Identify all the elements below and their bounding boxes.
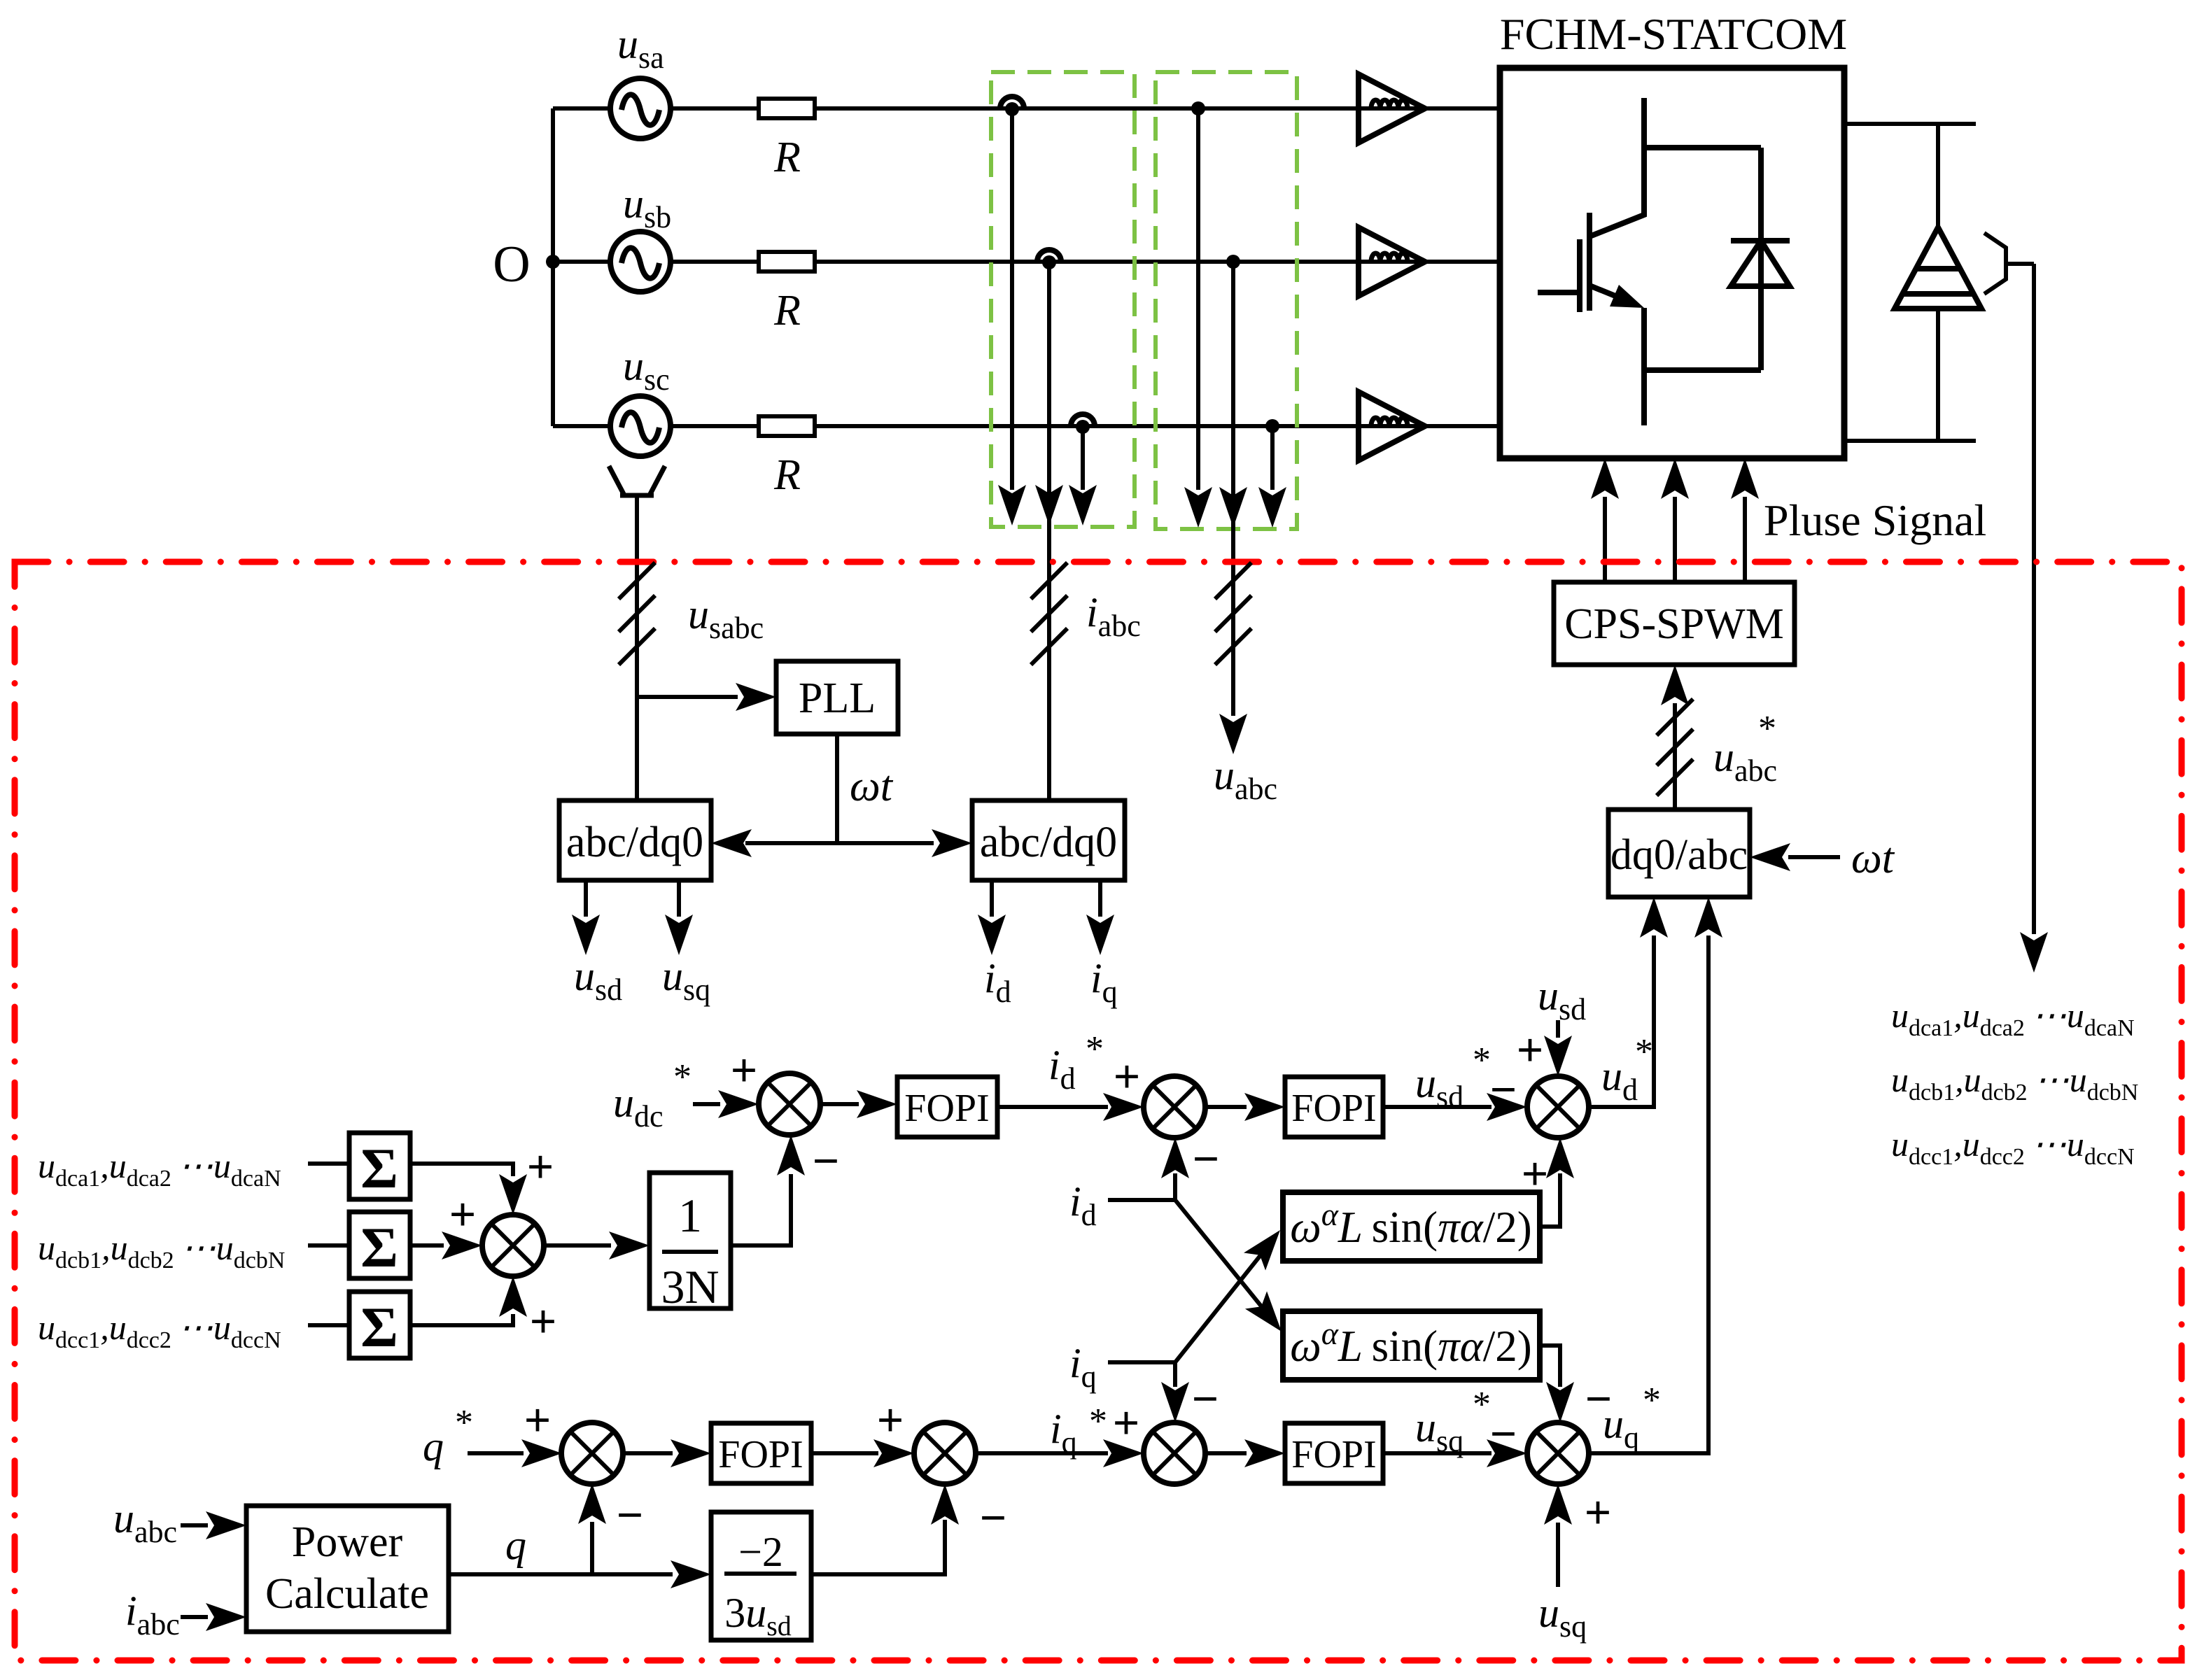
resistor R phase c [759,416,815,436]
svg-text:+: + [1114,1050,1141,1103]
resistor R phase a [759,99,815,118]
green sensor box 2 (voltage) [1156,72,1297,529]
wire: wL upper to A6 [1540,1173,1560,1227]
wire: uabc* to CPS-SPWM [1673,703,1677,810]
wire: tap a drop [1196,108,1200,490]
wire: sensor a drop [1010,112,1014,490]
filter inductor phase c [1359,392,1425,460]
ac source usc [610,396,671,456]
wire: A2 to 1/3N [544,1243,611,1248]
block -2/3usd [711,1512,811,1640]
wire: phase c line [671,424,759,428]
igbt Q1 body bar [1587,213,1592,311]
wire: FOPI2 to A6 [1383,1105,1491,1109]
svg-text:*: * [1473,1040,1491,1080]
wire: A3 to FOPI q1 [623,1451,673,1455]
wire: usq output [677,880,681,917]
wire: FOPI1 to A5 [997,1105,1108,1109]
wire: q up into A3 [590,1522,594,1574]
wire: sum b to adder [410,1243,444,1248]
adder A1 dc voltage error [759,1073,820,1135]
abc/dq0 block left [559,800,711,880]
wire: phase b line to converter [815,260,1500,264]
svg-text:+: + [731,1043,758,1096]
wire: iabc into power calc [181,1615,208,1619]
svg-text:−: − [1193,1132,1220,1185]
svg-text:−: − [813,1134,840,1187]
adder A7 current error q [1144,1423,1205,1484]
svg-text:Pluse Signal: Pluse Signal [1764,495,1986,545]
wire: iabc vertical [1047,265,1051,800]
diode D1 cathode bar [1731,238,1790,243]
block 1/3N [650,1173,731,1308]
wire: A6 to dq0/abc [1589,936,1654,1107]
svg-text:*: * [1635,1032,1653,1072]
diode D1 triangle [1731,241,1790,286]
svg-text:FCHM-STATCOM: FCHM-STATCOM [1500,9,1847,59]
svg-text:Calculate: Calculate [265,1570,429,1618]
svg-text:q: q [423,1423,444,1469]
wire: A5 to FOPI2 [1205,1105,1247,1109]
measurement bracket [1984,233,2006,294]
wire: PLL output [835,734,839,843]
wire: row a to sum [308,1162,349,1166]
wire: phase a line to converter [815,106,1500,111]
adder A8 uq* [1527,1423,1589,1484]
block wL upper [1283,1192,1540,1261]
svg-text:dq0/abc: dq0/abc [1610,831,1748,879]
slashes on uabc [1215,563,1251,599]
svg-text:*: * [1758,709,1776,749]
wire: capacitor stack top lead [1936,124,1940,227]
svg-text:ωt: ωt [1851,835,1895,882]
wire: sensor c drop [1081,430,1085,490]
svg-text:ωt: ωt [850,763,894,810]
block FOPI q2 [1285,1423,1383,1483]
block wL lower [1283,1311,1540,1380]
adder A6 ud* [1527,1076,1589,1138]
svg-text:+: + [1522,1147,1549,1200]
svg-text:+: + [527,1140,554,1193]
adder A4 [914,1423,976,1484]
wire: id feedback [1108,1198,1175,1202]
svg-text:−: − [980,1491,1007,1544]
wire: iq diagonal to wL upper [1175,1255,1261,1362]
wire: sum a to adder [410,1164,513,1176]
green sensor box 1 (current) [991,72,1135,527]
wire: A8 to dq0/abc [1589,936,1708,1453]
svg-text:+: + [1517,1023,1544,1076]
wire: phase c line to converter [815,424,1500,428]
red dash-dot control border [15,562,2182,1660]
voltage tap phase a [1191,101,1205,115]
svg-text:FOPI: FOPI [718,1433,803,1476]
svg-text:1: 1 [678,1189,702,1242]
wire: wL lower to A8 [1540,1346,1560,1387]
svg-text:−: − [1490,1063,1517,1116]
filter inductor phase a [1359,74,1425,143]
igbt Q1 top rail [1644,145,1761,150]
wire: row b to sum [308,1243,349,1248]
svg-text:q: q [505,1522,526,1568]
PLL block [776,661,898,734]
diode D1 branch [1758,148,1764,370]
pulse line a [1603,497,1607,582]
capacitor stack triangle [1895,227,1981,309]
svg-text:−: − [1490,1407,1517,1460]
wire: dc top rail [1844,122,1976,126]
wire: wt into dq0/abc [1788,855,1840,859]
svg-text:R: R [773,451,801,499]
svg-text:*: * [673,1057,692,1097]
wire: iq down into A7 [1173,1362,1177,1387]
igbt Q1 gate lead [1538,290,1580,295]
wire: sum c to adder [410,1314,513,1325]
wire: A7 to FOPI q2 [1205,1451,1247,1455]
svg-text:Σ: Σ [360,1295,398,1359]
svg-text:+: + [1113,1396,1140,1449]
svg-text:*: * [1089,1402,1107,1441]
wire: q* into A3 [468,1451,524,1455]
svg-text:3N: 3N [661,1260,719,1313]
wire: iq output [1098,880,1102,917]
current sensor phase c [1071,414,1095,434]
wire: q output [449,1572,673,1576]
wire: usabc vertical [635,495,639,800]
wire: phase b line [671,260,759,264]
wire: A1 to FOPI1 [820,1102,859,1106]
wire: row c to sum [308,1323,349,1327]
svg-text:+: + [530,1294,557,1348]
slashes on iabc [1031,563,1067,599]
wire: left neutral bus [551,108,555,426]
current sensor phase b [1037,250,1061,269]
svg-text:Σ: Σ [360,1215,398,1279]
sum block a [349,1133,410,1199]
wire: dc bottom rail [1844,439,1976,443]
svg-text:+: + [877,1393,904,1446]
wire: udc measurement line down [2032,264,2036,934]
sum block c [349,1292,410,1358]
svg-text:CPS-SPWM: CPS-SPWM [1564,600,1784,648]
igbt Q1 gate bar [1577,239,1582,312]
svg-text:*: * [1086,1029,1104,1069]
svg-text:Power: Power [292,1518,403,1566]
igbt Q1 collector lead [1589,98,1644,237]
wire: capacitor stack bottom lead [1936,309,1940,441]
node O junction dot [546,255,560,269]
wire: phase b stub [553,260,611,264]
wire: uabc into power calc [181,1523,208,1527]
adder A5 current error d [1144,1076,1205,1138]
igbt Q1 emitter lead [1641,308,1647,425]
svg-text:+: + [1585,1485,1612,1539]
wire: usabc to PLL [637,695,738,699]
voltage tap phase c [1265,419,1279,433]
svg-text:abc/dq0: abc/dq0 [980,819,1117,866]
wire: udc* into A1 [693,1102,720,1106]
svg-text:Σ: Σ [360,1136,398,1200]
wire: -2/3usd to A4 [811,1520,945,1574]
CPS-SPWM block [1554,582,1795,665]
igbt Q1 bottom rail [1644,367,1761,373]
slashes on uabc* [1657,699,1693,735]
svg-text:−2: −2 [738,1529,783,1575]
wire: phase a line [671,106,759,111]
wire: phase c stub [553,424,611,428]
resistor R phase b [759,252,815,271]
svg-text:R: R [773,134,801,181]
wire: phase a stub [553,106,611,111]
wire: FOPI q1 to A4 [811,1451,878,1455]
block FOPI q1 [711,1423,811,1483]
block Power Calculate [246,1506,449,1632]
wire: wt distribution [745,841,934,845]
svg-text:FOPI: FOPI [1291,1433,1376,1476]
adder A3 q error [561,1423,623,1484]
voltage pickup symbol under usc [609,466,665,495]
svg-text:R: R [773,287,801,334]
block FOPI d2 [1285,1077,1383,1137]
svg-text:abc/dq0: abc/dq0 [566,819,703,866]
wire: usd into A6 [1556,1020,1560,1038]
wire: uabc vertical [1231,262,1235,716]
wire: id up into A5 [1173,1173,1177,1200]
wire: usq into A8 [1556,1523,1560,1587]
pulse line c [1743,497,1747,582]
abc/dq0 block right [972,800,1125,880]
current sensor phase a [1000,97,1024,116]
svg-text:*: * [455,1403,473,1443]
svg-text:PLL: PLL [799,675,876,722]
filter inductor phase b [1359,227,1425,296]
svg-text:*: * [1643,1381,1661,1420]
sum block b [349,1212,410,1278]
igbt Q1 emitter arrow [1589,285,1631,302]
wire: tap c drop [1270,426,1275,490]
wire: FOPI q2 to A8 [1383,1451,1491,1455]
adder A2 sum of dc voltages [482,1215,544,1276]
ac source usa [610,78,671,139]
wire: usd output [584,880,588,917]
svg-text:*: * [1473,1385,1491,1425]
dq0/abc block [1608,810,1750,897]
svg-text:+: + [449,1187,477,1241]
wire: A4 to A7 [976,1451,1108,1455]
ac source usb [610,232,671,292]
voltage tap phase b [1226,255,1240,269]
wire: id diagonal to wL lower [1175,1200,1262,1307]
block FOPI d1 [897,1077,997,1137]
svg-text:−: − [617,1488,644,1541]
svg-text:FOPI: FOPI [1291,1087,1376,1130]
wire: id output [990,880,994,917]
pulse line b [1673,497,1677,582]
svg-text:O: O [493,236,530,293]
wire: 1/3N to A1 [731,1174,791,1245]
svg-text:+: + [524,1393,552,1446]
slashes on usabc [619,563,655,599]
svg-text:FOPI: FOPI [904,1087,989,1130]
svg-text:−: − [1192,1372,1219,1425]
FCHM-STATCOM box [1500,68,1844,458]
wire: iq feedback [1108,1360,1175,1364]
